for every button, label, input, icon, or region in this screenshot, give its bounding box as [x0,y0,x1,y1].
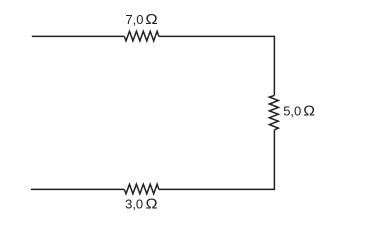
wire bottom-left [31,188,124,190]
wire top-left [32,35,125,37]
wire top-right [159,36,275,95]
svg-text:3,0: 3,0 [125,196,143,211]
svg-text:7,0: 7,0 [125,12,143,27]
resistor R3 5,0 ohm [269,95,278,129]
resistor R2 3,0 ohm [124,184,159,194]
svg-text:Ω: Ω [145,12,158,28]
svg-text:5,0: 5,0 [283,104,301,119]
svg-text:Ω: Ω [303,103,315,120]
svg-text:Ω: Ω [146,196,158,212]
wire right-bottom [159,130,275,190]
resistor R1 7,0 ohm [124,31,159,41]
